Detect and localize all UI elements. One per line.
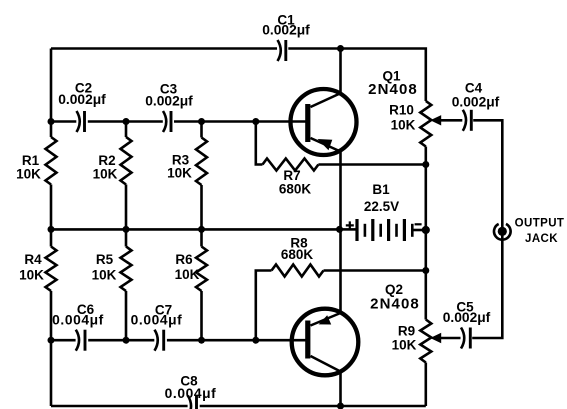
resistor R4 10K: [46, 247, 57, 292]
svg-text:R9: R9: [398, 324, 415, 339]
svg-text:10K: 10K: [16, 167, 41, 182]
svg-text:10K: 10K: [19, 268, 44, 283]
wiper arrow R9: [430, 333, 441, 343]
svg-text:680K: 680K: [281, 247, 314, 262]
svg-text:0.002μf: 0.002μf: [58, 92, 106, 107]
svg-text:0.002μf: 0.002μf: [145, 94, 193, 109]
junction bottom rail Q2 collector: [337, 403, 344, 409]
wire top rail right of C1 to R10 top: [288, 49, 426, 102]
capacitor C8 0.004uf: [188, 396, 191, 409]
svg-text:22.5V: 22.5V: [364, 199, 399, 214]
wire bottom rail right of C8: [200, 405, 426, 408]
wire R7 to right rail: [318, 163, 425, 166]
transistor Q1 2N408: [291, 89, 357, 155]
capacitor C3 0.002uf: [163, 111, 166, 132]
svg-text:R6: R6: [175, 252, 193, 267]
capacitor C7 0.004uf: [155, 330, 158, 351]
svg-text:2N408: 2N408: [368, 81, 418, 98]
junction row2 left rail: [48, 226, 55, 233]
junction row3 Q2 base node: [252, 337, 259, 344]
wiper arrow R10: [430, 115, 441, 125]
battery B1 22.5V: [355, 219, 358, 241]
svg-text:10K: 10K: [167, 166, 192, 181]
capacitor C1 0.002uf: [278, 40, 281, 61]
output jack symbol: [494, 224, 511, 240]
wire row2 rail to battery plus: [51, 228, 340, 231]
junction top node Q1 collector: [337, 45, 344, 52]
svg-text:10K: 10K: [93, 167, 118, 182]
junction battery plus node: [336, 226, 343, 233]
wire left rail lower: [50, 291, 53, 406]
resistor R8 680K: [272, 265, 324, 277]
svg-text:0.002μf: 0.002μf: [262, 23, 310, 38]
svg-text:C4: C4: [465, 81, 483, 96]
junction row3 R5 bottom: [123, 337, 130, 344]
svg-text:JACK: JACK: [525, 233, 558, 245]
svg-text:10K: 10K: [92, 268, 117, 283]
svg-text:R5: R5: [96, 252, 114, 267]
capacitor C2 0.002uf: [77, 111, 80, 132]
wire right rail R9 bottom to bottom rail: [424, 363, 427, 407]
wire left rail middle: [50, 185, 53, 247]
resistor R6 10K: [196, 247, 207, 292]
wire R8 to right rail: [324, 269, 426, 272]
svg-text:10K: 10K: [175, 267, 200, 282]
battery minus sign: [415, 223, 422, 225]
svg-text:10K: 10K: [392, 338, 417, 353]
capacitor C6 0.004uf: [76, 330, 79, 351]
wire top rail left of C1: [51, 47, 277, 50]
resistor R10 10K potentiometer: [420, 101, 431, 147]
resistor R3 10K: [196, 138, 207, 186]
junction row1 R2 top: [123, 118, 130, 125]
resistor R1 10K: [46, 137, 57, 185]
junction R8 right rail: [422, 267, 429, 274]
wire Q1 collector to top node: [339, 49, 342, 94]
resistor R9 10K potentiometer: [420, 320, 431, 363]
wire row1 C3 to Q1 base: [174, 120, 306, 123]
junction R7 right rail: [422, 161, 429, 168]
battery plus sign: [346, 221, 354, 229]
svg-text:0.002μf: 0.002μf: [452, 95, 500, 110]
capacitor C4 0.002uf: [463, 110, 466, 131]
svg-text:R10: R10: [389, 103, 414, 118]
wire left rail upper: [50, 49, 53, 138]
svg-text:R4: R4: [24, 252, 42, 267]
junction row1 R3 top: [198, 118, 205, 125]
wire row3 C6 to C7: [88, 339, 154, 342]
wire C4 to output jack line: [473, 120, 502, 231]
junction row2 R6 top: [198, 226, 205, 233]
transistor Q2 2N408: [292, 309, 359, 376]
junction row1 left rail: [48, 118, 55, 125]
wire C5 to output jack line: [472, 231, 502, 338]
junction row3 left rail: [48, 337, 55, 344]
wire Q2 collector to bottom rail: [339, 372, 342, 407]
svg-text:0.004μf: 0.004μf: [52, 313, 104, 328]
wire Q2 base node up to R8: [256, 271, 272, 341]
junction row1 Q1 base node: [252, 118, 259, 125]
wire Q1 emitter down through battery node to Q2 emitter: [339, 151, 342, 314]
resistor R2 10K: [121, 137, 132, 185]
wire right rail R10 bottom to R9 top: [424, 147, 427, 320]
junction row2 R5 top: [123, 226, 130, 233]
svg-text:680K: 680K: [279, 182, 312, 197]
svg-text:0.004μf: 0.004μf: [165, 386, 217, 401]
resistor R7 680K: [263, 159, 319, 171]
capacitor C5 0.002uf: [461, 328, 464, 349]
svg-text:2N408: 2N408: [370, 296, 420, 313]
svg-text:10K: 10K: [391, 118, 416, 133]
svg-text:B1: B1: [372, 182, 390, 197]
resistor R5 10K: [121, 247, 132, 292]
wire row1 node A to C2: [51, 120, 76, 123]
svg-text:0.004μf: 0.004μf: [131, 313, 183, 328]
wire Q1 base node down to R7: [256, 122, 263, 165]
svg-text:0.002μf: 0.002μf: [443, 310, 491, 325]
wire row3 C7 to Q2 base: [167, 339, 306, 342]
svg-text:OUTPUT: OUTPUT: [515, 218, 565, 230]
wire row1 C2 to C3: [88, 120, 163, 123]
junction battery minus node: [422, 226, 430, 234]
wire bottom rail left of C8: [51, 405, 188, 408]
wire row3 node to C6: [51, 339, 76, 342]
junction row3 R6 bottom: [198, 337, 205, 344]
